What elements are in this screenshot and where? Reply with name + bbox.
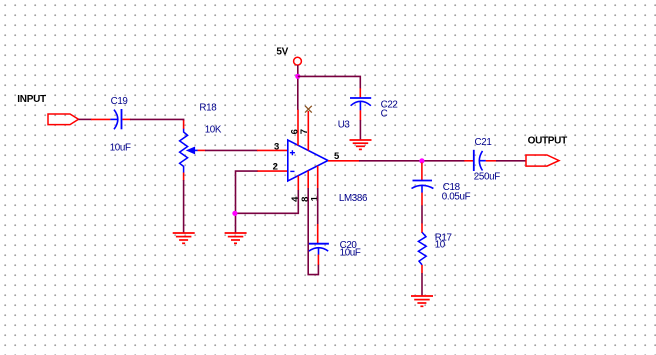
pin 7	[307, 111, 309, 151]
wire pin1 to C20 top	[317, 188, 319, 224]
pot wiper arrow R18	[187, 147, 198, 153]
wire pin5 to C21	[359, 160, 465, 162]
capacitor C18	[412, 181, 471, 203]
svg-text:10K: 10K	[205, 125, 222, 136]
wire 5V to pin6	[297, 65, 299, 110]
ground (R18)	[173, 233, 195, 243]
wire 5V rail to C22	[298, 76, 361, 88]
wire C22 to ground	[359, 120, 361, 140]
pin C22 top	[359, 88, 361, 98]
svg-text:10: 10	[435, 239, 446, 250]
port INPUT	[17, 94, 78, 125]
port OUTPUT	[526, 136, 567, 167]
svg-text:2: 2	[273, 162, 278, 173]
op-amp U3 LM386 triangle	[288, 120, 368, 204]
svg-text:LM386: LM386	[339, 193, 368, 204]
wire pin2 to ground	[236, 171, 258, 233]
ground (C22)	[350, 140, 372, 149]
svg-text:7: 7	[299, 129, 310, 134]
svg-text:U3: U3	[338, 120, 351, 131]
capacitor C22	[350, 98, 398, 120]
pin 8	[307, 171, 309, 189]
pin C21 right	[486, 160, 497, 162]
pin wiper stub	[198, 149, 206, 151]
wire R17 to ground	[421, 273, 423, 296]
svg-text:3: 3	[274, 141, 279, 152]
svg-text:1: 1	[309, 195, 320, 201]
svg-text:C19: C19	[111, 96, 128, 107]
no-connect X on pin 7	[305, 106, 312, 113]
pin R17 bottom	[421, 265, 423, 273]
svg-text:INPUT: INPUT	[17, 94, 46, 105]
pin C20 bottom	[317, 255, 319, 265]
pin C18 bottom	[421, 193, 423, 206]
pin 5	[328, 160, 360, 162]
capacitor C20	[309, 240, 361, 258]
resistor R17	[418, 232, 451, 265]
power port 5V	[276, 47, 301, 66]
pin C19 right	[122, 118, 130, 120]
junction 5V rail	[295, 74, 300, 79]
pin C21 left	[464, 160, 473, 162]
pin C22 bottom	[359, 110, 361, 120]
pin 4	[297, 176, 299, 190]
pin C18 top	[421, 163, 423, 181]
svg-text:10uF: 10uF	[110, 143, 131, 154]
resistor R18 (pot)	[180, 102, 222, 173]
svg-text:C21: C21	[475, 137, 492, 148]
junction pin2/pin4	[232, 211, 237, 216]
pin 6	[297, 110, 299, 146]
wire C19 to R18	[130, 119, 184, 121]
svg-text:0.05uF: 0.05uF	[442, 191, 471, 202]
wire R18 to ground	[183, 180, 185, 233]
pin 1	[317, 166, 319, 189]
ground (R17)	[411, 296, 433, 306]
pin C20 top	[317, 224, 319, 243]
pin 2	[257, 170, 288, 172]
svg-text:5V: 5V	[276, 47, 288, 58]
wire wiper to pin3	[205, 149, 258, 151]
ground (pin2/4)	[225, 233, 247, 243]
wire pin8 wrap to C20 bottom	[308, 188, 318, 275]
pin C19 left	[91, 118, 110, 120]
pin R17 top	[421, 223, 423, 233]
pin R18 top	[183, 120, 185, 129]
svg-text:OUTPUT: OUTPUT	[528, 136, 568, 147]
capacitor C19	[110, 96, 131, 154]
wire C18 to R17	[421, 205, 423, 223]
capacitor C21	[474, 137, 500, 182]
svg-text:R18: R18	[199, 102, 217, 113]
svg-text:5: 5	[334, 151, 340, 162]
wire pin4 to junction	[235, 190, 298, 214]
pin R18 bottom	[183, 173, 185, 181]
svg-text:250uF: 250uF	[474, 171, 500, 182]
wire C21 to output	[496, 160, 527, 162]
junction output node	[419, 158, 424, 163]
svg-text:C: C	[381, 109, 388, 120]
wire input to C19	[79, 118, 92, 120]
svg-text:10uF: 10uF	[340, 247, 361, 258]
pin 3	[257, 149, 288, 151]
